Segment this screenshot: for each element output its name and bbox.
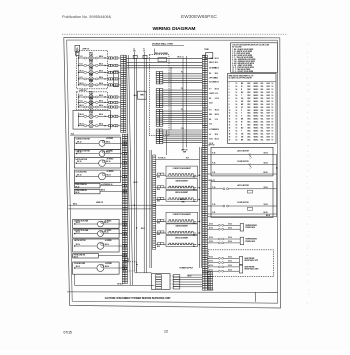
wire L1 vertical pair — [133, 52, 135, 272]
wire upper elements feed — [156, 158, 200, 160]
svg-text:V-18: V-18 — [215, 119, 218, 121]
ribbon cable P4 — [163, 73, 203, 75]
element row connector — [158, 231, 161, 233]
svg-text:R-12: R-12 — [80, 63, 83, 65]
element row connector — [158, 186, 161, 188]
svg-text:10: 10 — [236, 83, 238, 85]
svg-text:5: 5 — [229, 95, 230, 97]
svg-text:P-36: P-36 — [212, 187, 215, 189]
svg-text:10: 10 — [272, 113, 274, 115]
svg-text:9: 9 — [229, 107, 230, 109]
svg-text:600V: 600V — [267, 136, 271, 138]
wire to harness — [105, 84, 108, 86]
svg-text:SXL: SXL — [261, 101, 264, 103]
svg-text:SEW-2: SEW-2 — [254, 104, 259, 106]
svg-text:SEW-2: SEW-2 — [254, 127, 259, 129]
element section left rail B — [150, 150, 152, 268]
svg-text:BK-8: BK-8 — [157, 246, 160, 248]
svg-text:R-12: R-12 — [80, 100, 83, 102]
switch symbol latch upper — [249, 154, 252, 158]
svg-text:BK-8: BK-8 — [157, 234, 160, 236]
svg-text:SEW-2: SEW-2 — [254, 92, 259, 94]
dashed box meat probe receptacles — [208, 250, 273, 277]
svg-text:+R SPEED: +R SPEED — [105, 263, 112, 265]
svg-text:PROB ZONE SW: PROB ZONE SW — [75, 190, 87, 192]
svg-text:SXL: SXL — [261, 110, 264, 112]
motor CONVECTION FAN — [99, 140, 105, 146]
motor CONVECTION FAN — [99, 151, 105, 157]
svg-text:SEW-2: SEW-2 — [254, 139, 259, 141]
svg-text:BU-36: BU-36 — [266, 215, 270, 217]
svg-text:BK: BK — [209, 119, 211, 121]
ribbon cable P8 — [163, 89, 203, 91]
svg-text:BK-8: BK-8 — [157, 176, 160, 178]
switch symbol door upper — [249, 164, 252, 168]
box oven lights — [73, 110, 110, 129]
wire lower section feed 2 — [68, 208, 151, 210]
wire — [76, 143, 77, 144]
svg-text:W-10: W-10 — [215, 62, 218, 64]
svg-text:BR-18: BR-18 — [215, 114, 219, 116]
element row connector — [158, 243, 161, 245]
svg-text:600V: 600V — [267, 95, 271, 97]
svg-text:GY-36: GY-36 — [209, 269, 213, 271]
svg-text:GY-36: GY-36 — [209, 223, 213, 225]
svg-text:V: V — [241, 116, 242, 118]
legend box wire identification — [231, 43, 278, 73]
svg-text:BK: BK — [209, 73, 211, 75]
svg-text:P-36: P-36 — [212, 204, 215, 206]
heating element BAKE ELEMENT — [166, 179, 198, 190]
switch symbol door lower — [248, 207, 253, 210]
svg-text:600V: 600V — [267, 92, 271, 94]
box lower latch and door switches — [211, 182, 273, 218]
dashed box upper oven elements — [77, 51, 108, 89]
svg-text:BK-18: BK-18 — [215, 139, 219, 141]
svg-text:SEW-2: SEW-2 — [254, 83, 259, 85]
svg-text:10: 10 — [236, 101, 238, 103]
svg-text:SXL: SXL — [261, 133, 264, 135]
svg-text:UPP OV: UPP OV — [181, 149, 188, 151]
svg-text:GY: GY — [241, 107, 243, 109]
wire third lower — [207, 213, 273, 215]
power supply connector stack left — [156, 275, 162, 277]
svg-text:10: 10 — [236, 110, 238, 112]
svg-text:10: 10 — [229, 110, 231, 112]
svg-text:10: 10 — [236, 127, 238, 129]
svg-text:BK-10: BK-10 — [188, 276, 192, 278]
svg-text:10: 10 — [272, 89, 274, 91]
svg-text:600V: 600V — [267, 83, 271, 85]
svg-text:BK-18: BK-18 — [215, 89, 219, 91]
svg-text:13: 13 — [229, 119, 231, 121]
svg-text:10: 10 — [272, 130, 274, 132]
svg-text:CAUTION: DISCONNECT POWER BEFO: CAUTION: DISCONNECT POWER BEFORE SERVICI… — [105, 297, 172, 300]
wire third upper — [207, 173, 273, 175]
relay board top stub — [153, 49, 155, 55]
svg-text:BK-8: BK-8 — [157, 201, 160, 203]
svg-text:10: 10 — [272, 104, 274, 106]
svg-text:LIGHTS: LIGHTS — [209, 93, 214, 95]
svg-text:GN: GN — [241, 98, 243, 100]
wire lower section feed — [68, 204, 199, 206]
svg-text:NEU W: NEU W — [209, 62, 214, 64]
element row connector — [158, 219, 161, 221]
box upper latch and door switches — [211, 147, 273, 176]
wire vertical bus A — [182, 56, 184, 151]
svg-text:600V: 600V — [267, 104, 271, 106]
svg-text:SXL: SXL — [261, 122, 264, 124]
svg-text:LWR OV: LWR OV — [96, 202, 104, 204]
svg-text:GY-18: GY-18 — [215, 98, 219, 100]
svg-text:DOUBLE WALL OVEN: DOUBLE WALL OVEN — [152, 43, 173, 46]
element section right rail B — [201, 147, 203, 268]
svg-text:BU-18: BU-18 — [215, 110, 219, 112]
svg-text:10: 10 — [272, 107, 274, 109]
svg-text:SXL: SXL — [261, 98, 264, 100]
wire upper oven trunk — [78, 55, 80, 85]
svg-text:BK W-10: BK W-10 — [118, 283, 124, 285]
wire element row — [156, 174, 166, 176]
svg-text:BK-12: BK-12 — [80, 105, 84, 107]
MEAT PROBE RECEPTACLE LWR jack body — [239, 265, 242, 273]
right rail stubs — [273, 153, 277, 155]
wire latch upper — [207, 153, 273, 155]
svg-text:10: 10 — [236, 92, 238, 94]
motor LATCH MOTOR — [99, 160, 106, 167]
revision box A — [75, 45, 80, 51]
heating element BROIL ELEMENT — [166, 190, 198, 201]
svg-text:T-18: T-18 — [209, 124, 212, 126]
transformer TMR box — [137, 91, 146, 99]
motor COOLING FAN — [97, 265, 104, 272]
box COOLING FAN — [74, 170, 120, 182]
svg-text:PROB ZONE SW: PROB ZONE SW — [74, 254, 86, 256]
svg-text:Y-18: Y-18 — [215, 93, 218, 95]
svg-text:600V: 600V — [267, 98, 271, 100]
svg-text:SEW-2: SEW-2 — [254, 125, 259, 127]
wire — [74, 267, 75, 268]
MEAT PROBE RECEPTACLE UPP wires — [207, 257, 218, 259]
junction dot lower bus — [136, 227, 137, 228]
svg-text:10: 10 — [272, 139, 274, 141]
element row connector — [158, 197, 161, 199]
svg-text:SXL: SXL — [261, 86, 264, 88]
connector pair door lower — [223, 205, 225, 207]
svg-text:SXL: SXL — [261, 92, 264, 94]
svg-text:10: 10 — [272, 92, 274, 94]
switch symbol latch lower — [248, 190, 253, 193]
wire lower oven trunk — [78, 94, 80, 108]
svg-text:600V: 600V — [267, 86, 271, 88]
svg-text:SXL: SXL — [261, 119, 264, 121]
wire N vertical pair — [143, 52, 145, 272]
wire to harness — [105, 125, 108, 127]
wire group top 4 — [127, 67, 203, 69]
svg-text:SEW-2: SEW-2 — [254, 136, 259, 138]
svg-text:R-10: R-10 — [186, 158, 189, 160]
svg-text:600V: 600V — [267, 107, 271, 109]
wire element row — [156, 199, 166, 201]
svg-text:W-18: W-18 — [209, 139, 212, 141]
svg-text:GN: GN — [241, 133, 243, 135]
svg-text:SXL: SXL — [261, 130, 264, 132]
wire to harness — [105, 115, 108, 117]
svg-text:8. BR - BROWN SOLID WIRE: 8. BR - BROWN SOLID WIRE — [232, 63, 254, 65]
svg-text:GY-36: GY-36 — [209, 227, 213, 229]
box CONVECTION FAN — [74, 137, 120, 149]
svg-text:GY-36: GY-36 — [209, 237, 213, 239]
main harness connector strip — [202, 55, 205, 57]
svg-text:SXL: SXL — [261, 127, 264, 129]
heating element BROIL — [78, 57, 79, 58]
heating element LIGHT — [78, 125, 79, 126]
svg-text:+R SPEED: +R SPEED — [107, 171, 114, 173]
wire element row — [156, 220, 166, 222]
svg-text:1: 1 — [229, 83, 230, 85]
wire vertical stub element section — [165, 130, 167, 155]
svg-text:PROB ZONE SW: PROB ZONE SW — [75, 184, 87, 186]
wire to harness — [105, 64, 108, 66]
wire group top 1 — [127, 57, 203, 59]
motor CONVECTION FAN — [98, 231, 104, 237]
svg-text:6. GN - GREEN/YELLOW WIRE: 6. GN - GREEN/YELLOW WIRE — [232, 59, 255, 61]
svg-text:SXL: SXL — [261, 83, 264, 85]
TEMPERATURE PROBE JACK jack body — [240, 237, 243, 245]
svg-text:DOOR MOTOR: DOOR MOTOR — [237, 202, 249, 204]
svg-text:BU-36: BU-36 — [264, 212, 268, 214]
dashed box relay board — [149, 55, 169, 136]
svg-text:SEW-2: SEW-2 — [254, 86, 259, 88]
svg-text:SXL: SXL — [261, 95, 264, 97]
svg-text:BK-18: BK-18 — [215, 82, 219, 84]
svg-text:WIRING DIAGRAM: WIRING DIAGRAM — [153, 26, 196, 32]
svg-text:17: 17 — [229, 130, 231, 132]
heating element BAKE — [78, 102, 79, 103]
svg-text:GY-36: GY-36 — [228, 241, 232, 243]
svg-text:SXL: SXL — [261, 116, 264, 118]
svg-text:10: 10 — [236, 136, 238, 138]
wire bottom neutral vertical — [74, 274, 76, 285]
svg-text:SXL: SXL — [261, 89, 264, 91]
svg-text:3. R - RED SOLID WIRE: 3. R - RED SOLID WIRE — [232, 53, 250, 55]
svg-text:P-9: P-9 — [209, 110, 211, 112]
box lower probe zone switch — [73, 254, 99, 259]
svg-text:07/15: 07/15 — [64, 330, 72, 334]
motor CONVECTION FAN — [98, 221, 104, 227]
wire vertical from relay board — [170, 68, 172, 130]
element section pin column — [153, 155, 156, 157]
junction dot lower feed — [134, 205, 135, 206]
svg-text:GY-36: GY-36 — [209, 256, 213, 258]
svg-text:OR-36: OR-36 — [264, 153, 268, 155]
svg-text:8: 8 — [229, 104, 230, 106]
TEMPERATURE PROBE JACK wires — [207, 224, 218, 226]
svg-text:MDL: MDL — [209, 114, 212, 116]
harness ladder upper segment — [121, 55, 124, 57]
svg-text:SXL: SXL — [261, 136, 264, 138]
wire vertical bus B — [186, 56, 188, 148]
harness rail B — [129, 55, 133, 285]
wire upper motors feed — [70, 134, 121, 136]
MEAT PROBE RECEPTACLE LWR wires — [207, 266, 218, 268]
svg-text:10: 10 — [236, 119, 238, 121]
svg-text:10: 10 — [272, 122, 274, 124]
box COOLING FAN — [73, 262, 119, 274]
svg-text:7: 7 — [229, 101, 230, 103]
svg-text:GY-36: GY-36 — [228, 265, 232, 267]
box probe zone switch — [74, 183, 100, 188]
svg-text:600V: 600V — [267, 116, 271, 118]
wire group top 2 — [127, 61, 203, 63]
svg-text:SEW-2: SEW-2 — [254, 130, 259, 132]
svg-text:GY: GY — [209, 134, 211, 136]
svg-text:SEW-2: SEW-2 — [254, 133, 259, 135]
svg-text:600V: 600V — [267, 122, 271, 124]
svg-text:W-18: W-18 — [215, 134, 218, 136]
svg-text:+R SPEED: +R SPEED — [106, 138, 113, 140]
relay board connector P8 — [156, 89, 159, 91]
wire to harness — [105, 78, 108, 80]
motor COOLING FAN — [99, 173, 106, 180]
ribbon cable P13 — [163, 129, 203, 131]
svg-text:BROIL ELEMENT: BROIL ELEMENT — [175, 192, 188, 194]
svg-text:GY-36: GY-36 — [228, 223, 232, 225]
svg-text:V-36: V-36 — [212, 212, 215, 214]
svg-text:GY-36: GY-36 — [228, 261, 232, 263]
svg-text:600V: 600V — [267, 127, 271, 129]
dashed box door switch bottom — [123, 262, 136, 271]
svg-text:12: 12 — [229, 116, 231, 118]
TEMPERATURE PROBE JACK jack body — [240, 224, 243, 232]
wire — [76, 163, 77, 164]
svg-text:OR-36: OR-36 — [264, 163, 268, 165]
svg-text:2. W - WHITE SOLID WIRE: 2. W - WHITE SOLID WIRE — [232, 51, 252, 53]
wire group top 3 — [127, 65, 203, 67]
svg-text:Publication No. 5995544066: Publication No. 5995544066 — [62, 14, 111, 19]
relay board connector P13 — [156, 129, 159, 131]
connector box N top — [143, 55, 147, 58]
wire gauge table — [228, 74, 277, 144]
harness ladder lower segment — [122, 134, 125, 136]
svg-text:N: N — [143, 49, 144, 51]
wire below meat probe box — [207, 277, 209, 290]
svg-text:SXL: SXL — [261, 113, 264, 115]
revision box small — [76, 52, 79, 55]
svg-text:18: 18 — [229, 133, 231, 135]
svg-text:BK-10: BK-10 — [215, 58, 219, 60]
door switch connector box — [125, 258, 129, 261]
svg-text:15: 15 — [229, 125, 231, 127]
relay board connector P6 — [156, 110, 159, 112]
svg-text:BK-12: BK-12 — [80, 83, 84, 85]
svg-text:5. Y - YELLOW SOLID WIRE: 5. Y - YELLOW SOLID WIRE — [232, 57, 253, 59]
svg-text:DOOR MOTOR: DOOR MOTOR — [237, 161, 249, 163]
wire — [74, 245, 75, 246]
svg-text:P-36: P-36 — [212, 163, 215, 165]
svg-text:GY-36: GY-36 — [209, 265, 213, 267]
svg-text:SEW-2: SEW-2 — [254, 98, 259, 100]
svg-text:10: 10 — [272, 83, 274, 85]
svg-text:GY-36: GY-36 — [228, 227, 232, 229]
right vertical rail — [276, 154, 278, 216]
heating element BROIL ELEMENT — [166, 236, 198, 247]
wire lights trunk — [78, 113, 80, 126]
footer cell divider — [254, 292, 256, 302]
svg-text:BU-36: BU-36 — [264, 172, 268, 174]
heating element CONV — [78, 106, 79, 107]
harness bottom connector column B — [208, 272, 211, 274]
wire long bottom neutral — [75, 284, 155, 286]
svg-text:BK: BK — [209, 98, 211, 100]
ribbon cable P6 — [163, 110, 203, 112]
svg-text:19: 19 — [229, 136, 231, 138]
svg-text:12. V - VIOLET SOLID WIRE: 12. V - VIOLET SOLID WIRE — [232, 71, 253, 73]
svg-text:R-12: R-12 — [80, 56, 83, 58]
svg-text:W-18: W-18 — [209, 103, 212, 105]
outer border frame — [64, 38, 281, 308]
svg-text:OR-36: OR-36 — [264, 204, 268, 206]
power supply connector stack right — [173, 275, 180, 277]
svg-text:GY-36: GY-36 — [228, 237, 232, 239]
wire door lower — [207, 205, 223, 207]
svg-text:BK-10: BK-10 — [134, 182, 138, 184]
wire lower probe zone switch — [98, 255, 122, 257]
wire — [76, 176, 77, 177]
svg-text:GN-18: GN-18 — [215, 129, 219, 131]
svg-text:POWER SUPPLY: POWER SUPPLY — [180, 267, 194, 269]
wire element row — [156, 187, 166, 189]
wire to harness — [105, 96, 108, 98]
svg-text:GY-36: GY-36 — [209, 241, 213, 243]
wire probe zone switch 2 — [100, 191, 122, 193]
power supply dashed links — [170, 275, 173, 277]
wire element row — [156, 244, 166, 246]
svg-text:P-36: P-36 — [212, 153, 215, 155]
wire power supply feed stub — [188, 274, 203, 276]
svg-text:10. P - PURPLE SOLID WIRE: 10. P - PURPLE SOLID WIRE — [232, 67, 254, 69]
svg-text:10: 10 — [272, 119, 274, 121]
svg-text:10: 10 — [272, 101, 274, 103]
svg-text:UPP OV: UPP OV — [209, 145, 216, 147]
svg-text:GY-36: GY-36 — [228, 269, 232, 271]
svg-text:SEW-2: SEW-2 — [254, 95, 259, 97]
wire probe zone switch — [100, 185, 122, 187]
svg-text:OR-36: OR-36 — [264, 187, 268, 189]
wire to harness — [105, 57, 108, 59]
svg-text:R-18: R-18 — [215, 77, 218, 79]
inner border frame — [67, 40, 278, 303]
svg-text:600V: 600V — [267, 101, 271, 103]
connector box L1 top — [133, 55, 137, 58]
svg-text:SEW-2: SEW-2 — [254, 110, 259, 112]
connector pair latch lower — [223, 188, 225, 190]
junction dot door switch — [136, 264, 137, 265]
svg-text:SXL: SXL — [261, 125, 264, 127]
box LATCH MOTOR — [73, 239, 119, 252]
svg-text:SEW-2: SEW-2 — [254, 119, 259, 121]
svg-text:16: 16 — [229, 127, 231, 129]
svg-text:Y: Y — [241, 95, 242, 97]
box CONVECTION FAN — [73, 219, 119, 228]
svg-text:10: 10 — [272, 127, 274, 129]
heating element BROIL — [78, 84, 79, 85]
svg-text:W-18: W-18 — [215, 73, 218, 75]
footer separator line — [67, 291, 277, 293]
wire latch lower — [207, 188, 223, 190]
svg-text:T: T — [241, 113, 242, 115]
svg-text:10: 10 — [272, 98, 274, 100]
